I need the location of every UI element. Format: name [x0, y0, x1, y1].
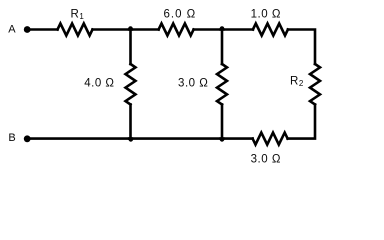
resistor 4.0 ohm [126, 64, 136, 105]
svg-text:A: A [8, 24, 16, 36]
wire node 2 to 1.0 ohm [221, 28, 253, 31]
wire node 1 to 4.0 ohm [129, 30, 132, 65]
wire 3.0 ohm middle to bottom node 2 [221, 105, 224, 139]
wire B to bottom node 1 [27, 137, 132, 140]
wire 1.0 ohm to top-right corner [288, 30, 315, 65]
wire bottom node 1 to node 2 [129, 137, 223, 140]
junction node 2 top [220, 26, 225, 31]
svg-text:R2: R2 [290, 75, 304, 88]
resistor 6.0 ohm [159, 24, 194, 36]
resistor 3.0 ohm middle [217, 64, 227, 105]
svg-text:3.0 Ω: 3.0 Ω [178, 78, 208, 90]
junction node 2 bottom [220, 137, 225, 142]
wire 4.0 ohm to bottom node 1 [129, 105, 132, 139]
wire node 1 to 6.0 ohm [129, 28, 158, 31]
wire 6.0 ohm to node 2 [194, 28, 224, 31]
wire bottom node 2 to 3.0 ohm [221, 137, 253, 140]
svg-text:R1: R1 [71, 8, 85, 21]
svg-text:1.0 Ω: 1.0 Ω [251, 9, 281, 21]
resistor 3.0 ohm bottom [253, 133, 288, 145]
wire A to R1 [27, 28, 58, 31]
svg-text:6.0 Ω: 6.0 Ω [164, 9, 197, 21]
wire R2 to bottom-right corner [288, 105, 315, 139]
wire node 2 to 3.0 ohm middle [221, 30, 224, 65]
terminal B [24, 135, 31, 142]
terminal A [24, 26, 31, 33]
resistor R2 [310, 64, 320, 105]
resistor 1.0 ohm [253, 24, 288, 36]
junction node 1 top [128, 26, 133, 31]
junction node 1 bottom [129, 137, 134, 142]
svg-text:B: B [8, 132, 16, 144]
wire R1 to node 1 [93, 28, 132, 31]
svg-text:4.0 Ω: 4.0 Ω [84, 78, 114, 90]
svg-text:3.0 Ω: 3.0 Ω [251, 153, 281, 165]
resistor R1 [58, 24, 93, 36]
